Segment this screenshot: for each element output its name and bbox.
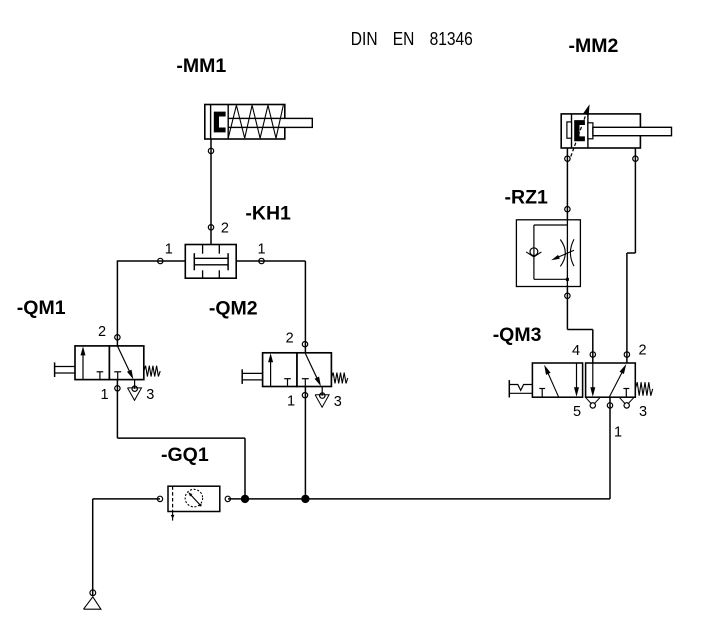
air intake triangle (84, 597, 101, 609)
valve port 1 connection (302, 393, 307, 398)
valve KH1 body (185, 245, 236, 279)
valve right square flow arrow 2 to 3 (117, 346, 130, 373)
valve QM3 port 1 connection (607, 403, 612, 408)
wire QM1 port 2 to KH1 port 1 left (116, 261, 118, 346)
svg-text:-QM3: -QM3 (493, 324, 542, 346)
valve RZ1 bypass branch (534, 224, 568, 226)
cylinder MM1 body (205, 105, 285, 140)
valve RZ1 check valve ball (530, 248, 538, 256)
valve QM3 port 5 connection (590, 403, 595, 408)
valve KH1 left port connection (158, 258, 163, 263)
cylinder MM2 piston seal (574, 120, 585, 141)
svg-text:-QM2: -QM2 (209, 297, 258, 319)
cylinder MM2 piston rod (593, 127, 672, 135)
valve port 3 connection (320, 393, 325, 398)
svg-text:2: 2 (286, 331, 294, 347)
svg-text:2: 2 (98, 324, 106, 340)
valve QM3 port 4 connection (590, 352, 595, 357)
cylinder MM2 piston face (587, 114, 589, 148)
valve left square blocked port T (97, 371, 104, 373)
valve body right square (109, 346, 143, 380)
valve KH1 shuttle piston (193, 253, 195, 270)
valve right square flow arrow 2 to 3 (305, 353, 318, 380)
valve body left square (263, 353, 297, 387)
cylinder MM2 left cap line (571, 114, 573, 148)
cylinder MM2 left cushion sleeve (567, 122, 572, 138)
cylinder MM2 right cushion sleeve (588, 123, 593, 139)
valve port 2 connection (115, 335, 120, 340)
svg-text:1: 1 (287, 394, 295, 410)
svg-text:4: 4 (572, 343, 580, 359)
valve plunger actuator (54, 362, 56, 377)
valve body left square (75, 346, 109, 380)
cylinder MM2 adjustable cushioning arrow (571, 113, 587, 156)
service unit GQ1 left connection (157, 496, 162, 501)
cylinder MM1 return spring (228, 105, 283, 138)
valve RZ1 top connection (565, 207, 570, 212)
cylinder MM1 left cap line (210, 105, 212, 140)
wire MM2 left port to RZ1 (566, 148, 568, 220)
wire GQ1 left to intake (93, 498, 160, 500)
valve port 2 connection (302, 342, 307, 347)
valve RZ1 adjustment arrow (559, 250, 575, 257)
valve QM3 left square flow arrow 1 to 4 (548, 373, 559, 397)
valve QM3 body left square (532, 363, 582, 397)
valve port 3 stub (321, 387, 323, 396)
svg-text:-QM1: -QM1 (17, 297, 66, 319)
cylinder MM1 port connection (208, 148, 213, 153)
service unit GQ1 box (168, 486, 220, 511)
valve QM3 detent plunger actuator (508, 380, 510, 397)
svg-text:3: 3 (639, 404, 647, 420)
valve QM3 left square blocked port T (539, 388, 545, 390)
wire MM2 right port to QM3 port 2 (634, 148, 636, 253)
valve RZ1 throttle arcs (560, 240, 565, 267)
svg-text:DIN EN 81346: DIN EN 81346 (351, 29, 473, 50)
service unit GQ1 dial circle dotted (185, 489, 203, 507)
valve KH1 bottom ticks (202, 270, 204, 278)
svg-text:1: 1 (165, 241, 173, 257)
valve RZ1 outer box (516, 220, 580, 287)
cylinder MM1 piston face (227, 105, 229, 140)
svg-text:-RZ1: -RZ1 (505, 187, 548, 209)
svg-text:-GQ1: -GQ1 (161, 444, 209, 466)
valve QM3 port 2 connection (624, 352, 629, 357)
valve QM3 port 3 exhaust triangle (620, 398, 626, 404)
valve left square flow arrow up (82, 354, 84, 379)
service unit GQ1 filter dashed line (172, 486, 174, 511)
valve QM3 port 5 exhaust triangle (586, 398, 592, 404)
valve right square blocked port T (114, 371, 121, 373)
valve RZ1 branch junction (566, 278, 569, 281)
svg-text:-KH1: -KH1 (245, 203, 291, 225)
wire MM1 to KH1 port 2 (210, 139, 212, 245)
valve right square blocked port T (302, 378, 309, 380)
junction B (301, 495, 309, 503)
junction A (241, 495, 249, 503)
cylinder MM2 left port connection (565, 156, 570, 161)
cylinder MM2 body (561, 114, 640, 148)
valve plunger actuator (241, 369, 243, 384)
svg-text:-MM1: -MM1 (176, 55, 226, 77)
cylinder MM1 piston seal (214, 112, 226, 133)
valve port 3 exhaust triangle (315, 395, 329, 407)
wire QM2 port 1 to junction B (304, 386, 306, 499)
valve left square blocked port T (284, 378, 291, 380)
svg-text:-MM2: -MM2 (569, 35, 619, 57)
valve RZ1 check valve seat (526, 252, 533, 257)
valve QM3 return spring (635, 382, 652, 396)
wire QM1 port 1 to junction A (116, 380, 118, 439)
svg-text:3: 3 (146, 387, 154, 403)
cylinder MM1 piston rod (228, 118, 312, 127)
svg-text:2: 2 (221, 221, 229, 237)
air intake connection (90, 590, 96, 596)
valve return spring (331, 373, 347, 384)
svg-text:2: 2 (639, 343, 647, 359)
cylinder MM2 right port connection (633, 156, 638, 161)
svg-text:1: 1 (614, 424, 622, 440)
valve port 3 connection (132, 386, 137, 391)
valve left square flow arrow up (270, 361, 272, 386)
valve body right square (297, 353, 331, 387)
service unit GQ1 right connection (225, 496, 230, 501)
valve QM3 right square flow arrow 4 to 5 down (592, 363, 594, 389)
wire RZ1 to QM3 port 4 (566, 287, 568, 330)
valve RZ1 main line (566, 220, 568, 287)
valve QM3 body right square (586, 363, 636, 397)
valve port 1 connection (115, 386, 120, 391)
valve QM3 left square flow arrow 2 to 3 down (576, 363, 578, 389)
svg-text:1: 1 (101, 387, 109, 403)
service unit GQ1 dial needle (191, 495, 201, 506)
valve KH1 right port connection (259, 258, 264, 263)
valve port 3 exhaust triangle (128, 388, 142, 400)
valve QM3 right square flow arrow 1 to 2 (609, 373, 622, 398)
wire supply bus GQ1 to QM3 port 1 (228, 498, 610, 500)
svg-text:5: 5 (573, 404, 581, 420)
service unit GQ1 condensate drain arrow (172, 512, 174, 521)
node KH1 top connection (208, 225, 213, 230)
valve port 3 stub (134, 380, 136, 389)
valve QM3 port 3 connection (624, 403, 629, 408)
wire KH1 port 1 right to QM2 port 2 (236, 260, 305, 262)
valve return spring (144, 366, 160, 377)
svg-text:3: 3 (334, 394, 342, 410)
valve QM3 right square blocked port T (623, 388, 629, 390)
svg-text:1: 1 (258, 241, 266, 257)
valve RZ1 bottom connection (565, 293, 570, 298)
valve KH1 top ticks (202, 245, 204, 254)
